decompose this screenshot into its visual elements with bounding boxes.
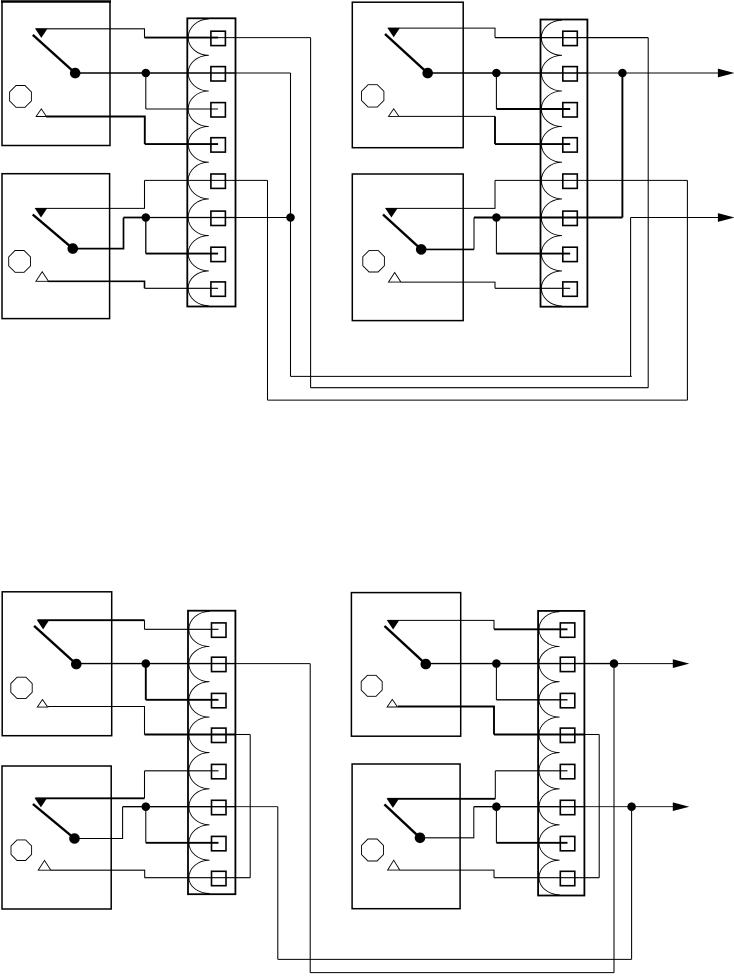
switch S2 enclosure (2, 174, 110, 319)
wire S8 common to output bus (474, 806, 674, 808)
switch S8 common pivot (415, 833, 425, 843)
switch S6 cam symbol (11, 840, 32, 861)
connector J1 pin 4 (211, 138, 226, 152)
connector J2 housing (541, 20, 588, 307)
connector J2 pin 8 (563, 282, 578, 296)
switch S2 NO contact triangle (35, 208, 46, 216)
connector J3 pin 7 (212, 836, 227, 850)
wire routing bus C (268, 399, 688, 401)
switch S4 common pivot (416, 245, 426, 255)
switch S6 NC contact triangle (38, 860, 51, 870)
wire routing bus A (291, 375, 632, 377)
wire S5 common to J3 pin2 (76, 663, 310, 665)
switch S1 top edge (1, 0, 111, 3)
wire S2 NO to J1 pin5 (36, 180, 268, 208)
switch S8 NO contact triangle (387, 799, 398, 807)
wire S2 NC to J1 pin8 (48, 281, 218, 288)
switch S8 cam symbol (362, 839, 384, 861)
wire S4 NC to J2 pin8 (401, 282, 570, 288)
wire S2 common branch to J1 pin7 (146, 218, 218, 254)
wire routing bus A riser to output 2 (630, 218, 632, 377)
wire S8 common branch to J4 pin7 (496, 807, 567, 843)
junction node S1 common (142, 69, 150, 77)
wire J3 pin2 to routing bus D (310, 664, 614, 973)
connector J2 pin 5 (563, 174, 578, 188)
junction node S4 common (493, 214, 501, 222)
connector J4 pin 5 (560, 764, 575, 778)
wire S4 common riser (421, 218, 474, 250)
wire J3 pin4 to pin8 link (249, 735, 251, 878)
wire S3 NC to J2 pin4 (399, 116, 570, 144)
switch S4 lever (383, 215, 421, 250)
wire J4 pin4 to pin8 link (598, 735, 600, 878)
wire S2 common to J1 pin6 (124, 217, 291, 219)
wire S1 common branch to J1 pin3 (146, 73, 218, 109)
wire S6 common riser (75, 807, 123, 839)
connector J3 pin 1 (212, 623, 227, 637)
connector J4 pin 4 (560, 728, 575, 742)
wire S3 common bus to output (428, 72, 719, 74)
switch S4 enclosure (352, 174, 463, 321)
switch S3 enclosure (352, 2, 463, 148)
switch S8 NC contact triangle (388, 860, 400, 870)
wire S7 NC to J4 pin4 (398, 707, 599, 735)
switch S4 cam symbol (363, 250, 385, 272)
connector J2 pin 3 (563, 103, 578, 117)
switch S7 NC contact triangle (387, 699, 397, 707)
switch S2 lever (33, 215, 73, 249)
junction node S3 common (493, 69, 501, 77)
wire S6 NC to J3 pin8 (51, 870, 250, 878)
switch S5 lever (34, 626, 76, 664)
wire output 2 lead (631, 217, 719, 219)
output arrow 4 (673, 803, 687, 810)
switch S1 cam symbol (10, 86, 32, 108)
wire J1 pin5 to routing bus C (267, 180, 269, 400)
connector J2 pin 6 (563, 211, 578, 225)
wire S4 common to J2 pin6 (474, 217, 622, 219)
connector J4 pin 3 (560, 693, 575, 707)
wire S1 common to J1 pin2 (75, 72, 290, 74)
switch S2 common pivot (68, 244, 78, 254)
switch S1 NC contact triangle (36, 109, 46, 117)
switch S7 enclosure (351, 593, 460, 737)
wire S7 common branch to J4 pin3 (496, 664, 567, 700)
switch S5 enclosure (2, 592, 112, 736)
switch S2 NC contact triangle (36, 272, 49, 282)
connector J4 pin 6 (560, 800, 575, 814)
switch S7 NO contact triangle (388, 620, 399, 628)
wire S7 NO to J4 pin1 (388, 620, 568, 629)
switch S4 NC contact triangle (389, 273, 401, 283)
junction node S5 common (142, 660, 150, 668)
switch S5 NO contact triangle (38, 620, 49, 628)
junction node output 4 (628, 803, 636, 811)
switch S7 lever (385, 626, 426, 664)
wire S8 common riser (420, 807, 474, 838)
switch S5 cam symbol (11, 677, 32, 698)
junction node S7 common (493, 660, 501, 668)
wire S3 NO to J2 pin1 (388, 28, 648, 37)
switch S4 NO contact triangle (386, 208, 397, 216)
switch S8 lever (384, 804, 420, 837)
wire S8 NO to J4 pin5 (387, 771, 567, 799)
switch S1 enclosure (2, 2, 110, 146)
wire S8 NC to J4 pin8 (400, 870, 599, 878)
connector J3 pin 3 (212, 693, 227, 707)
switch S1 lever (33, 35, 75, 73)
connector J2 pin 7 (563, 247, 578, 261)
connector J4 pin 7 (560, 836, 575, 850)
wire S7 common bus to output (426, 663, 674, 665)
switch S1 NO contact triangle (36, 29, 47, 37)
output arrow 1 (718, 69, 732, 76)
connector J1 pin 7 (211, 247, 226, 261)
connector J1 housing (187, 18, 235, 306)
wire S6 NO to J3 pin5 (35, 771, 218, 799)
switch S8 enclosure (352, 764, 460, 909)
connector J1 pin 2 (211, 67, 226, 81)
wire routing bus B riser to J2 pin1 (647, 38, 649, 388)
output arrow 3 (673, 660, 687, 667)
wire S2 common riser (73, 218, 124, 249)
switch S3 lever (385, 34, 428, 73)
switch S1 common pivot (70, 68, 80, 78)
connector J1 pin 1 (211, 31, 226, 45)
connector J4 pin 8 (560, 871, 575, 885)
switch S6 common pivot (70, 834, 80, 844)
connector J4 pin 2 (560, 657, 575, 671)
connector J3 pin 4 (212, 728, 227, 742)
switch S2 cam symbol (9, 251, 31, 273)
connector J1 pin 8 (211, 282, 226, 296)
switch S3 NC contact triangle (389, 109, 399, 117)
switch S7 common pivot (421, 659, 431, 669)
output arrow 2 (718, 214, 732, 221)
wire J1 pin2 to routing bus A (290, 73, 292, 376)
wire routing bus B (311, 387, 649, 389)
switch S3 common pivot (423, 68, 433, 78)
switch S3 cam symbol (362, 85, 384, 107)
wire S6 common branch to J3 pin7 (146, 807, 219, 843)
wire S5 NC to J3 pin4 (48, 707, 250, 735)
connector J3 pin 6 (212, 800, 227, 814)
junction node S2 common (142, 214, 150, 222)
switch S6 NO contact triangle (35, 798, 46, 806)
connector J3 housing (188, 611, 235, 895)
wire S5 NO to J3 pin1 (38, 620, 219, 629)
connector J3 pin 5 (212, 764, 227, 778)
connector J2 pin 2 (563, 67, 578, 81)
switch S5 NC contact triangle (37, 700, 47, 708)
wire S1 NO to J1 pin1 (36, 29, 311, 38)
wire J3 pin6 to routing bus E (278, 807, 632, 960)
connector J3 pin 2 (212, 657, 227, 671)
wire S4 NO to J2 pin5 (386, 180, 688, 208)
switch S6 lever (33, 804, 75, 839)
connector J4 housing (538, 611, 584, 896)
connector J2 pin 1 (563, 31, 578, 45)
switch S7 cam symbol (361, 675, 382, 696)
wire routing bus C riser to J2 pin5 (686, 180, 688, 400)
wire S1 NC to J1 pin4 (46, 117, 218, 145)
junction node S8 common (493, 803, 501, 811)
wire J1 pin1 to routing bus B (310, 38, 312, 388)
junction node J1 pin6 tap (287, 214, 295, 222)
wire S3 common branch to J2 pin3 (496, 73, 570, 109)
junction node output 3 (610, 660, 618, 668)
connector J4 pin 1 (560, 623, 575, 637)
connector J2 pin 4 (563, 138, 578, 152)
switch S6 enclosure (2, 766, 111, 909)
wire S4 common branch to J2 pin7 (496, 218, 570, 254)
junction node output 1 (619, 69, 627, 77)
connector J1 pin 3 (211, 103, 226, 117)
wire J2 pin6 riser to output bus (621, 73, 623, 218)
connector J1 pin 6 (211, 211, 226, 225)
switch S5 common pivot (72, 659, 82, 669)
wire S5 common branch to J3 pin3 (146, 664, 219, 700)
junction node S6 common (142, 803, 150, 811)
connector J1 pin 5 (211, 174, 226, 188)
wire S6 common to J3 pin6 (123, 806, 278, 808)
switch S3 NO contact triangle (388, 28, 399, 36)
connector J3 pin 8 (212, 871, 227, 885)
